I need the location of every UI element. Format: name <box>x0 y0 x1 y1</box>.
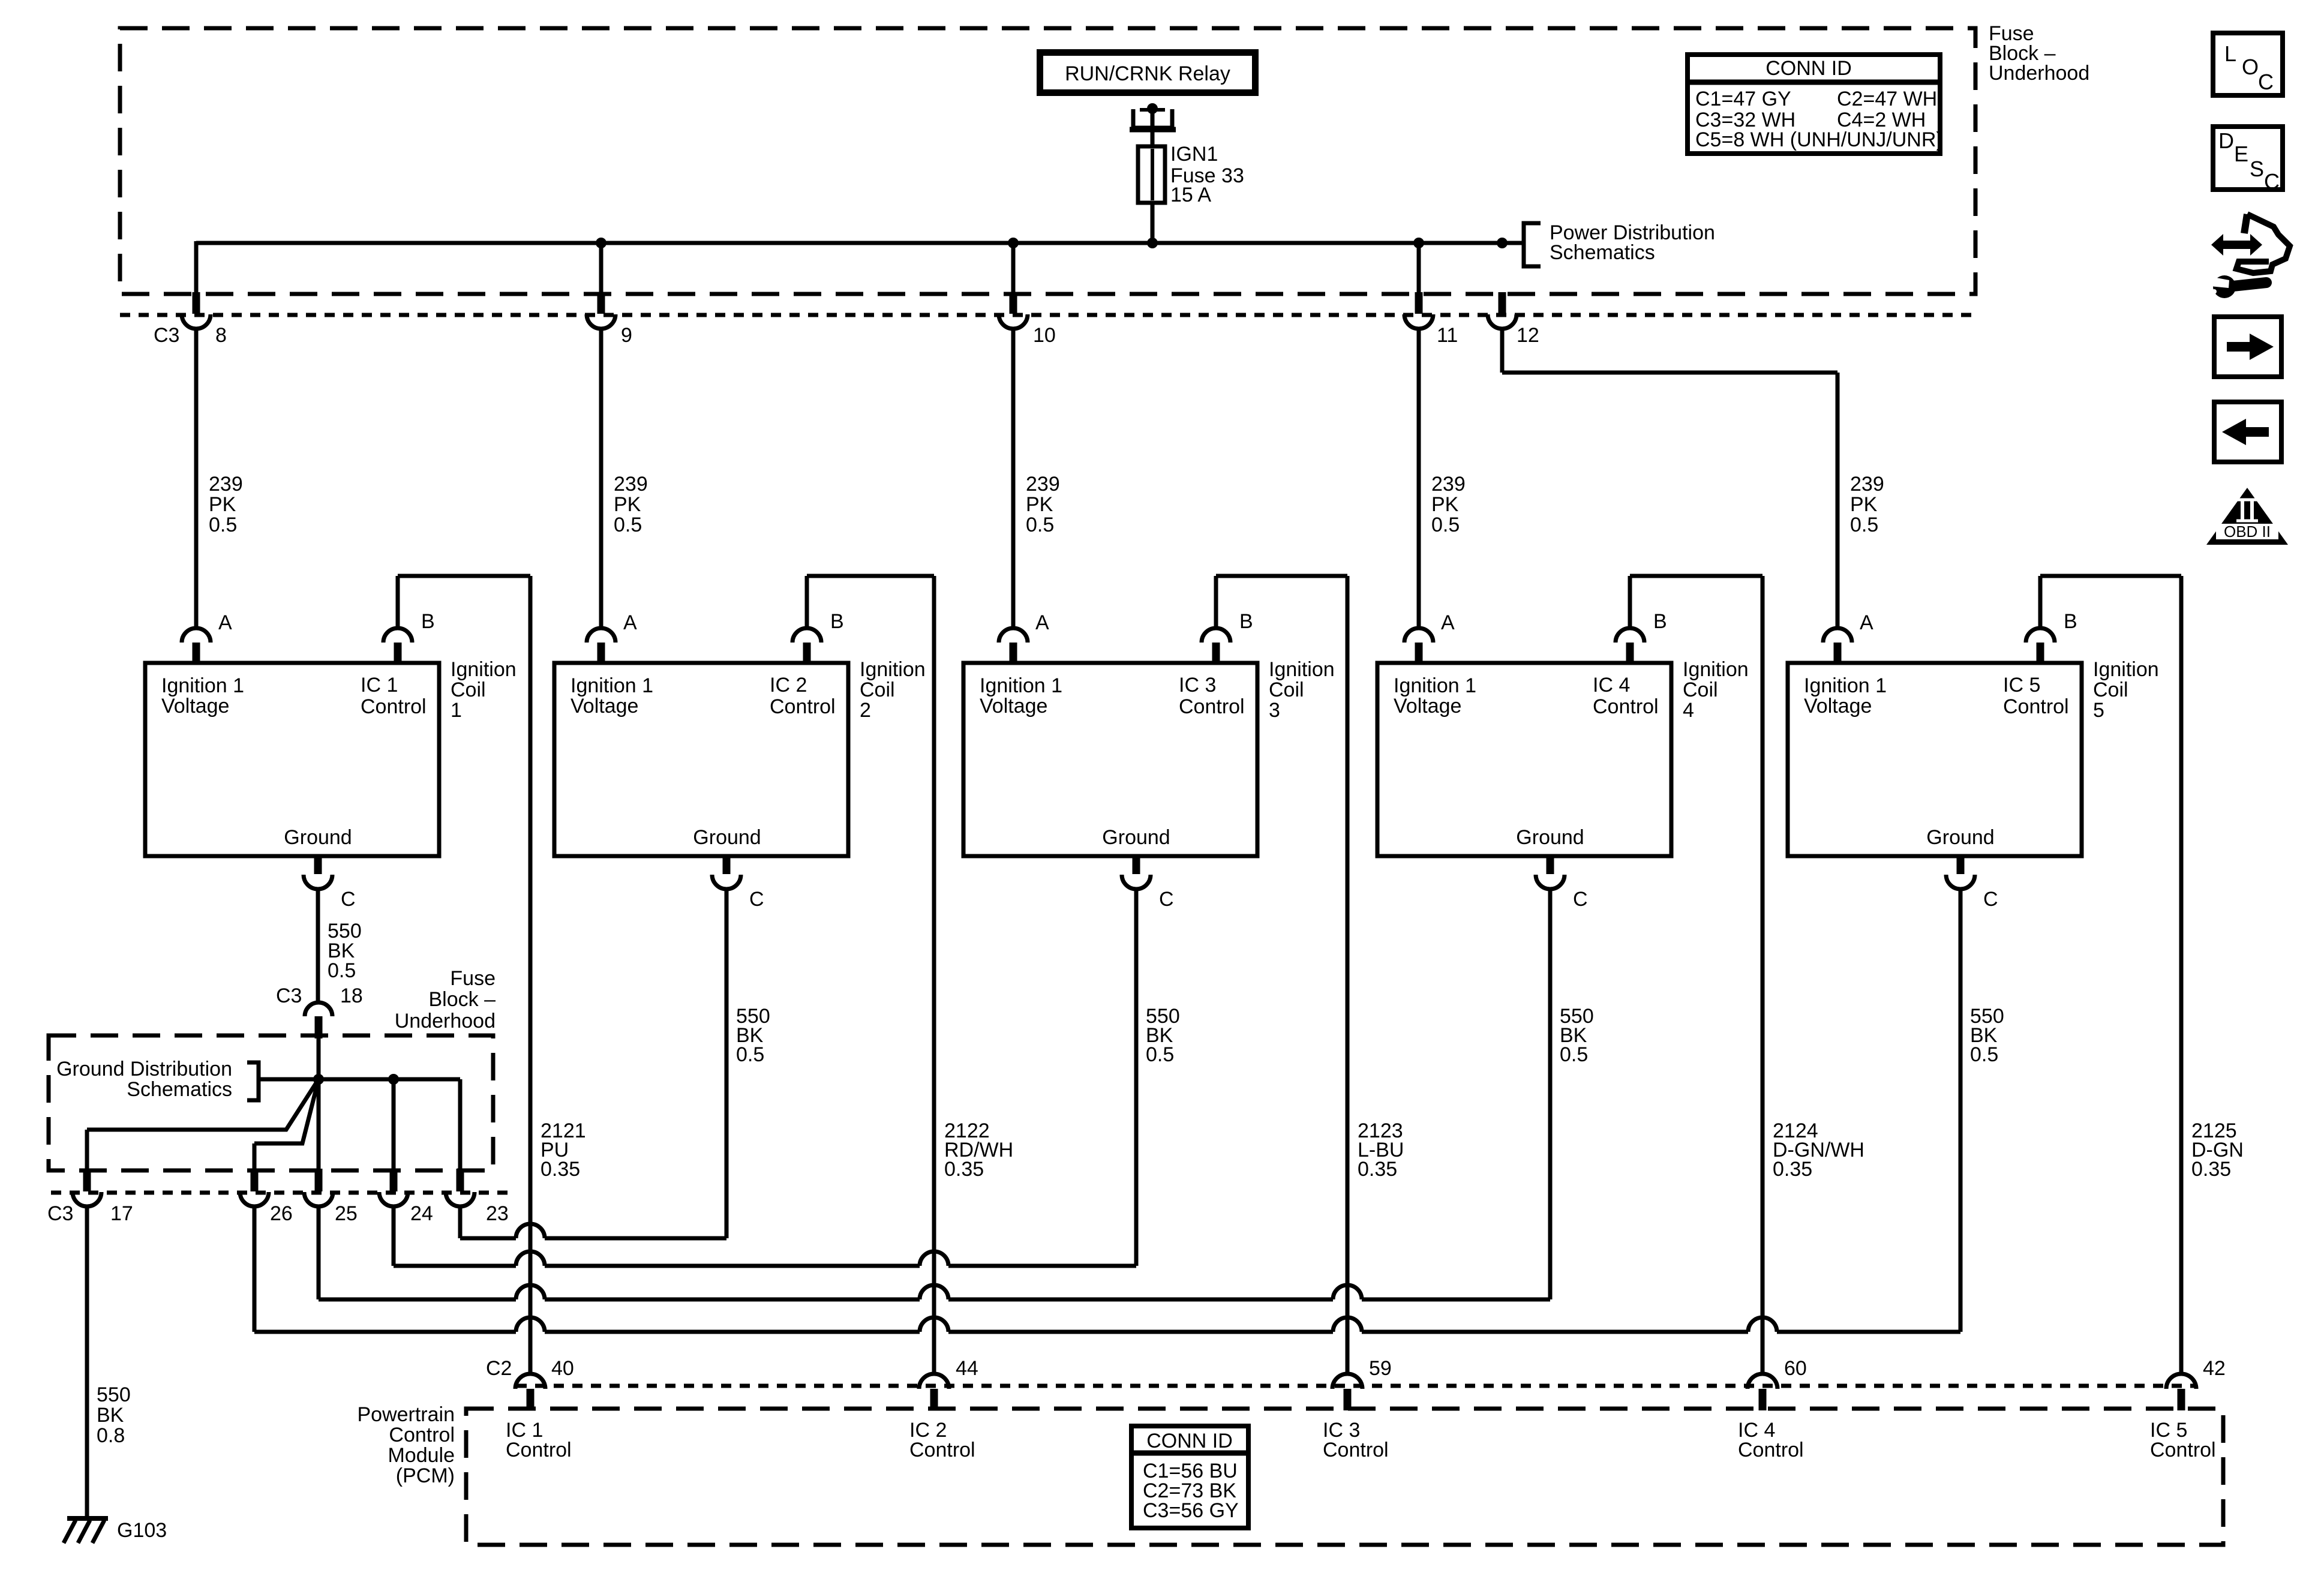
svg-text:Control: Control <box>1738 1439 1804 1461</box>
svg-text:Schematics: Schematics <box>127 1078 232 1101</box>
svg-text:IC 4: IC 4 <box>1593 674 1630 697</box>
wire splice to conn 25 <box>317 1079 321 1169</box>
svg-text:IC 3: IC 3 <box>1179 674 1216 697</box>
icon OBD II triangle <box>2206 488 2288 545</box>
svg-text:C: C <box>1983 888 1998 911</box>
label Ignition Coil 2 <box>860 658 926 722</box>
wire 239 PK 0.5 branch 3 (pin 10 to coil 3 A) <box>1011 243 1016 628</box>
coil 5 pin B label <box>2064 610 2077 633</box>
label 239 PK 0.5 #5 <box>1850 473 1884 536</box>
svg-text:O: O <box>2242 55 2259 79</box>
svg-text:40: 40 <box>551 1357 574 1380</box>
label Powertrain Control Module (PCM) <box>357 1403 455 1487</box>
svg-text:Ignition: Ignition <box>451 658 517 681</box>
ignition coil 4 box <box>1377 663 1671 856</box>
svg-text:PK: PK <box>1026 493 1053 516</box>
wire splice to conn 24 <box>392 1079 396 1169</box>
svg-text:L: L <box>2224 41 2236 66</box>
svg-text:C: C <box>341 888 356 911</box>
svg-text:G103: G103 <box>117 1519 167 1542</box>
connector C2 pin 59 <box>1332 1374 1362 1410</box>
svg-text:60: 60 <box>1784 1357 1807 1380</box>
svg-text:5: 5 <box>2093 699 2104 722</box>
icon back arrow box <box>2214 402 2281 462</box>
svg-text:Voltage: Voltage <box>1394 695 1461 718</box>
svg-text:IC 5: IC 5 <box>2003 674 2040 697</box>
coil 3 pin A label <box>1035 611 1049 634</box>
coil 3 pin C connector <box>1122 854 1151 889</box>
label pin 42 <box>2203 1357 2226 1380</box>
label Ground Distribution Schematics <box>56 1058 232 1101</box>
wire coil 4 ground 550 BK 0.5 (drop) <box>1548 889 1553 1299</box>
label Ignition Coil 4 <box>1683 658 1749 722</box>
label 550 BK 0.8 <box>97 1383 131 1447</box>
svg-text:17: 17 <box>110 1202 133 1225</box>
coil 2 pin B connector <box>792 628 821 663</box>
PCM text IC 3 Control <box>1323 1419 1389 1461</box>
coil 2 pin B label <box>830 610 844 633</box>
coil 3 pin B connector <box>1202 628 1230 663</box>
svg-text:10: 10 <box>1033 324 1056 347</box>
svg-text:S: S <box>2250 157 2264 181</box>
svg-text:OBD II: OBD II <box>2224 523 2271 541</box>
svg-text:A: A <box>218 611 232 634</box>
connector C3 pin 10 <box>999 292 1028 329</box>
coil 2 text Ignition 1 Voltage <box>571 674 653 718</box>
svg-text:BK: BK <box>97 1404 124 1427</box>
svg-text:Ground: Ground <box>1102 826 1170 849</box>
svg-text:C3: C3 <box>47 1202 73 1225</box>
svg-text:23: 23 <box>486 1202 509 1225</box>
svg-text:24: 24 <box>410 1202 433 1225</box>
svg-text:C2=47 WH: C2=47 WH <box>1837 88 1937 110</box>
wire IC 3 control (coil B to run) <box>1216 576 1347 1374</box>
label 239 PK 0.5 #3 <box>1026 473 1060 536</box>
connector C2 pin 44 <box>919 1374 949 1410</box>
svg-text:Underhood: Underhood <box>1989 62 2089 85</box>
svg-text:Coil: Coil <box>1683 679 1718 701</box>
PCM text IC 2 Control <box>909 1419 975 1461</box>
wire ground splice bar <box>259 1077 460 1082</box>
svg-text:C: C <box>1159 888 1174 911</box>
wire splice diagonal to 26 <box>254 1079 319 1169</box>
label pin 8 <box>215 324 227 347</box>
svg-text:RUN/CRNK Relay: RUN/CRNK Relay <box>1065 62 1230 85</box>
label pin 9 <box>621 324 632 347</box>
relay output terminal symbol <box>1130 103 1176 130</box>
coil 5 text Ground <box>1926 826 1994 849</box>
connector C2 pin 40 <box>515 1374 545 1410</box>
ground distribution dashed outline <box>49 1035 493 1170</box>
svg-text:0.35: 0.35 <box>2191 1158 2231 1181</box>
svg-text:B: B <box>1653 610 1667 633</box>
coil 4 pin A connector <box>1404 628 1433 663</box>
svg-text:0.5: 0.5 <box>1431 514 1460 536</box>
svg-text:9: 9 <box>621 324 632 347</box>
coil 5 pin A label <box>1860 611 1873 634</box>
svg-text:Coil: Coil <box>451 679 486 701</box>
svg-text:C: C <box>749 888 764 911</box>
coil 3 text IC 3 Control <box>1179 674 1245 718</box>
svg-text:C: C <box>2258 70 2274 94</box>
svg-text:Control: Control <box>389 1424 455 1446</box>
svg-text:Voltage: Voltage <box>980 695 1047 718</box>
svg-text:0.5: 0.5 <box>328 959 356 982</box>
coil 5 pin C connector <box>1946 854 1975 889</box>
svg-text:Control: Control <box>1323 1439 1389 1461</box>
svg-text:Ignition 1: Ignition 1 <box>571 674 653 697</box>
svg-text:PK: PK <box>1431 493 1459 516</box>
label 239 PK 0.5 #4 <box>1431 473 1466 536</box>
coil 3 pin B label <box>1239 610 1253 633</box>
coil 4 text Ignition 1 Voltage <box>1394 674 1476 718</box>
PCM text IC 5 Control <box>2150 1419 2216 1461</box>
svg-text:Control: Control <box>1593 695 1659 718</box>
ground distribution bracket <box>247 1062 259 1100</box>
label pin 12 <box>1517 324 1539 347</box>
coil 3 pin A connector <box>999 628 1028 663</box>
svg-text:Ignition: Ignition <box>1683 658 1749 681</box>
coil 4 pin C label <box>1573 888 1588 911</box>
wire IC 1 control (coil B to run) <box>398 576 530 1374</box>
junction dot splice 24 <box>388 1074 399 1085</box>
svg-text:0.5: 0.5 <box>1026 514 1054 536</box>
connector C3 pin 26 <box>240 1169 269 1206</box>
svg-text:8: 8 <box>215 324 227 347</box>
label pin 40 <box>551 1357 574 1380</box>
label pin 17 <box>110 1202 133 1225</box>
coil 4 pin C connector <box>1536 854 1565 889</box>
connector C3 pin 18 <box>305 1002 332 1038</box>
svg-text:Voltage: Voltage <box>1804 695 1872 718</box>
wire coil 1 ground 550 BK 0.5 <box>316 889 320 1002</box>
label Ignition Coil 3 <box>1269 658 1335 722</box>
svg-text:A: A <box>1860 611 1873 634</box>
svg-text:Ignition 1: Ignition 1 <box>1394 674 1476 697</box>
coil 2 pin A connector <box>587 628 615 663</box>
svg-text:B: B <box>421 610 435 633</box>
dotted connector face line (fuse block C3) <box>120 313 1974 317</box>
junction dot node 12 <box>1497 238 1508 248</box>
dotted connector face line (PCM C2) <box>517 1384 2196 1388</box>
wire IC 2 control (coil B to run) <box>807 576 934 1374</box>
coil 1 text Ignition 1 Voltage <box>161 674 244 718</box>
svg-text:0.5: 0.5 <box>736 1043 764 1066</box>
coil 5 pin C label <box>1983 888 1998 911</box>
label pin 44 <box>956 1357 978 1380</box>
svg-text:0.35: 0.35 <box>944 1158 984 1181</box>
svg-text:25: 25 <box>335 1202 358 1225</box>
icon LOC box <box>2213 33 2283 95</box>
svg-text:(PCM): (PCM) <box>396 1464 455 1487</box>
icon forward arrow box <box>2214 317 2281 377</box>
coil 1 pin C label <box>341 888 356 911</box>
svg-text:Block –: Block – <box>429 988 496 1011</box>
CONN ID table (PCM) <box>1129 1426 1251 1528</box>
svg-text:18: 18 <box>340 984 363 1007</box>
wire ground link conn 24 to coil 3 <box>394 1206 1136 1266</box>
label C3 (bottom row) <box>47 1202 73 1225</box>
coil 1 text IC 1 Control <box>361 674 427 718</box>
svg-text:4: 4 <box>1683 699 1694 722</box>
label pin 23 <box>486 1202 509 1225</box>
svg-text:0.35: 0.35 <box>541 1158 580 1181</box>
label pin 18 <box>340 984 363 1007</box>
svg-text:Ignition 1: Ignition 1 <box>161 674 244 697</box>
svg-text:PK: PK <box>209 493 236 516</box>
label wire 2123 L-BU 0.35 <box>1358 1119 1404 1181</box>
icon diagnostic wrench <box>2210 214 2290 298</box>
powertrain control module dashed outline <box>466 1409 2223 1545</box>
svg-text:44: 44 <box>956 1357 978 1380</box>
svg-text:Ground: Ground <box>284 826 352 849</box>
wire ignition feed bus <box>196 241 1522 245</box>
svg-text:2: 2 <box>860 699 871 722</box>
label wire 2124 D-GN/WH 0.35 <box>1773 1119 1864 1181</box>
svg-text:Ground Distribution: Ground Distribution <box>56 1058 232 1080</box>
svg-text:Control: Control <box>909 1439 975 1461</box>
connector C3 pin 11 <box>1404 292 1433 329</box>
svg-text:D: D <box>2218 128 2234 153</box>
svg-text:Module: Module <box>388 1444 455 1467</box>
coil 3 text Ground <box>1102 826 1170 849</box>
ignition coil 5 box <box>1788 663 2082 856</box>
label pin 59 <box>1369 1357 1392 1380</box>
junction dot node 9 <box>596 238 606 248</box>
svg-text:IC 2: IC 2 <box>770 674 807 697</box>
label 550 BK 0.5 (coil 4) <box>1560 1005 1594 1066</box>
svg-text:A: A <box>1441 611 1455 634</box>
svg-text:Ignition: Ignition <box>1269 658 1335 681</box>
coil 2 pin C label <box>749 888 764 911</box>
coil 4 text IC 4 Control <box>1593 674 1659 718</box>
coil 5 text Ignition 1 Voltage <box>1804 674 1887 718</box>
label Ignition Coil 5 <box>2093 658 2159 722</box>
label 550 BK 0.5 (coil 1) <box>328 920 362 982</box>
svg-text:11: 11 <box>1437 324 1458 347</box>
svg-text:Control: Control <box>2003 695 2069 718</box>
wire 239 PK 0.5 branch 2 (pin 9 to coil 2 A) <box>599 243 603 628</box>
wire coil 5 ground 550 BK 0.5 (drop) <box>1959 889 1963 1332</box>
connector C3 pin 9 <box>587 292 615 329</box>
ignition coil 2 box <box>554 663 848 856</box>
svg-text:0.5: 0.5 <box>1970 1043 1998 1066</box>
connector C3 pin 12 <box>1488 292 1517 329</box>
svg-text:0.35: 0.35 <box>1358 1158 1397 1181</box>
svg-text:Coil: Coil <box>2093 679 2128 701</box>
connector C2 pin 42 <box>2166 1374 2196 1410</box>
coil 2 pin C connector <box>712 854 741 889</box>
svg-text:239: 239 <box>1431 473 1466 496</box>
wire IC 4 control (coil B to run) <box>1630 576 1762 1374</box>
label Ignition Coil 1 <box>451 658 517 722</box>
wire fuse to bus <box>1151 203 1155 243</box>
coil 1 pin A label <box>218 611 232 634</box>
junction dot node 10 <box>1008 238 1019 248</box>
coil 5 pin A connector <box>1823 628 1852 663</box>
CONN ID table (fuse block) <box>1685 55 1943 154</box>
coil 5 pin B connector <box>2026 628 2055 663</box>
connector C2 pin 60 <box>1747 1374 1777 1410</box>
label 239 PK 0.5 #2 <box>614 473 648 536</box>
svg-text:C3: C3 <box>276 984 302 1007</box>
wire IC 5 control (coil B to run) <box>2040 576 2181 1374</box>
svg-text:0.35: 0.35 <box>1773 1158 1812 1181</box>
wire splice diagonal to 17 <box>87 1079 319 1169</box>
svg-text:15 A: 15 A <box>1170 184 1211 206</box>
svg-text:Coil: Coil <box>1269 679 1304 701</box>
wire splice to conn 23 <box>458 1079 463 1169</box>
icon DESC box <box>2213 127 2283 194</box>
label G103 <box>117 1519 167 1542</box>
svg-text:A: A <box>623 611 637 634</box>
coil 1 pin A connector <box>182 628 211 663</box>
PCM text IC 4 Control <box>1738 1419 1804 1461</box>
svg-text:Control: Control <box>770 695 836 718</box>
label pin 60 <box>1784 1357 1807 1380</box>
svg-text:Ignition 1: Ignition 1 <box>1804 674 1887 697</box>
svg-text:C3: C3 <box>154 324 179 347</box>
wire coil 2 ground 550 BK 0.5 (drop) <box>725 889 729 1238</box>
svg-text:IC 1: IC 1 <box>361 674 398 697</box>
svg-text:C1=47 GY: C1=47 GY <box>1695 88 1791 110</box>
connector C3 pin 17 <box>73 1169 101 1206</box>
label 550 BK 0.5 (coil 3) <box>1146 1005 1180 1066</box>
svg-text:A: A <box>1035 611 1049 634</box>
svg-text:Ignition: Ignition <box>860 658 926 681</box>
PCM text IC 1 Control <box>506 1419 572 1461</box>
svg-text:3: 3 <box>1269 699 1280 722</box>
label pin 10 <box>1033 324 1056 347</box>
svg-text:0.5: 0.5 <box>1560 1043 1588 1066</box>
wire ground link conn 23 to coil 2 <box>460 1206 726 1238</box>
coil 1 pin C connector <box>304 854 332 889</box>
svg-text:Ground: Ground <box>1926 826 1994 849</box>
svg-text:C5=8 WH (UNH/UNJ/UNR): C5=8 WH (UNH/UNJ/UNR) <box>1695 128 1943 151</box>
svg-text:1: 1 <box>451 699 462 722</box>
svg-text:42: 42 <box>2203 1357 2226 1380</box>
svg-text:Ignition: Ignition <box>2093 658 2159 681</box>
svg-text:Control: Control <box>1179 695 1245 718</box>
coil 1 pin B connector <box>383 628 412 663</box>
label 550 BK 0.5 (coil 2) <box>736 1005 770 1066</box>
svg-text:Control: Control <box>506 1439 572 1461</box>
svg-text:239: 239 <box>614 473 648 496</box>
svg-text:C: C <box>2264 169 2280 194</box>
junction dot fuse node <box>1147 238 1158 248</box>
svg-text:26: 26 <box>270 1202 293 1225</box>
wire ground link conn 25 to coil 4 <box>319 1206 1550 1299</box>
svg-text:E: E <box>2234 142 2248 166</box>
junction dot node 11 <box>1413 238 1424 248</box>
svg-text:CONN ID: CONN ID <box>1765 57 1852 80</box>
wire 239 PK 0.5 branch 4 (pin 11 to coil 4 A) <box>1417 243 1421 628</box>
coil 5 text IC 5 Control <box>2003 674 2069 718</box>
fuse F IGN1 Fuse 33 15A <box>1138 143 1244 206</box>
label C3 (top row) <box>154 324 179 347</box>
svg-text:IGN1: IGN1 <box>1170 143 1218 166</box>
label pin 25 <box>335 1202 358 1225</box>
connector C3 pin 8 <box>182 292 211 329</box>
svg-text:0.5: 0.5 <box>209 514 237 536</box>
label C2 <box>486 1357 512 1380</box>
coil 4 pin A label <box>1441 611 1455 634</box>
svg-text:Underhood: Underhood <box>395 1010 496 1032</box>
junction dot splice center <box>313 1074 324 1085</box>
svg-text:Voltage: Voltage <box>571 695 638 718</box>
wire conn 18 into splice <box>317 1038 321 1079</box>
label C3 (pin 18) <box>276 984 302 1007</box>
coil 3 pin C label <box>1159 888 1174 911</box>
connector C3 pin 23 <box>446 1169 475 1206</box>
label pin 26 <box>270 1202 293 1225</box>
wire 239 PK 0.5 branch 5 (pin 12 to coil 5 A) <box>1502 329 1837 628</box>
coil 1 pin B label <box>421 610 435 633</box>
power distribution schematics bracket <box>1524 221 1715 266</box>
svg-text:12: 12 <box>1517 324 1539 347</box>
svg-text:Ground: Ground <box>1516 826 1584 849</box>
coil 4 pin B connector <box>1616 628 1644 663</box>
svg-text:C3=56 GY: C3=56 GY <box>1143 1499 1239 1522</box>
svg-text:Control: Control <box>361 695 427 718</box>
svg-text:239: 239 <box>1026 473 1060 496</box>
svg-text:Voltage: Voltage <box>161 695 229 718</box>
svg-text:0.5: 0.5 <box>1850 514 1878 536</box>
ignition coil 1 box <box>145 663 439 856</box>
label wire 2121 PU 0.35 <box>541 1119 586 1181</box>
wire 239 PK 0.5 branch 1 (pin 8 to coil 1 A) <box>194 241 199 628</box>
svg-text:PK: PK <box>1850 493 1878 516</box>
coil 2 pin A label <box>623 611 637 634</box>
fuse block - underhood dashed outline (top) <box>120 28 1975 294</box>
svg-text:239: 239 <box>1850 473 1884 496</box>
label pin 11 <box>1437 324 1458 347</box>
svg-text:Control: Control <box>2150 1439 2216 1461</box>
coil 4 pin B label <box>1653 610 1667 633</box>
ignition coil 3 box <box>963 663 1257 856</box>
label 550 BK 0.5 (coil 5) <box>1970 1005 2004 1066</box>
label wire 2125 D-GN 0.35 <box>2191 1119 2244 1181</box>
relay K RUN/CRNK Relay box <box>1037 49 1259 96</box>
wire relay to fuse <box>1151 113 1155 148</box>
coil 1 text Ground <box>284 826 352 849</box>
dotted connector face line (ground C3) <box>51 1191 510 1195</box>
svg-text:Powertrain: Powertrain <box>357 1403 455 1426</box>
ground symbol G103 <box>64 1518 108 1543</box>
svg-text:B: B <box>2064 610 2077 633</box>
label pin 24 <box>410 1202 433 1225</box>
svg-text:PK: PK <box>614 493 641 516</box>
svg-text:B: B <box>830 610 844 633</box>
svg-text:0.5: 0.5 <box>614 514 642 536</box>
connector C3 pin 25 <box>304 1169 333 1206</box>
svg-text:59: 59 <box>1369 1357 1392 1380</box>
svg-text:Schematics: Schematics <box>1550 241 1655 264</box>
svg-text:B: B <box>1239 610 1253 633</box>
coil 4 text Ground <box>1516 826 1584 849</box>
label 239 PK 0.5 #1 <box>209 473 243 536</box>
coil 2 text IC 2 Control <box>770 674 836 718</box>
label Fuse Block - Underhood (top right) <box>1989 22 2089 85</box>
label Fuse Block - Underhood (middle) <box>395 967 496 1032</box>
coil 3 text Ignition 1 Voltage <box>980 674 1062 718</box>
svg-text:Fuse: Fuse <box>450 967 496 990</box>
label wire 2122 RD/WH 0.35 <box>944 1119 1013 1181</box>
wire 550 BK 0.8 to ground <box>85 1206 89 1518</box>
svg-text:0.8: 0.8 <box>97 1424 125 1447</box>
coil 2 text Ground <box>693 826 761 849</box>
svg-text:C: C <box>1573 888 1588 911</box>
